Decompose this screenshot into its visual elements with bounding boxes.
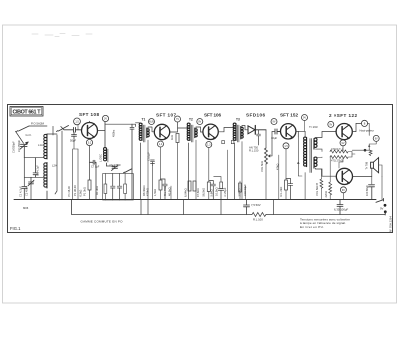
wire T1 primary bottom to bus	[140, 143, 142, 200]
wire switch top joins	[29, 125, 47, 127]
wire T1 sec bottom down	[147, 140, 149, 200]
svg-text:2 ×SFT 122: 2 ×SFT 122	[329, 113, 357, 118]
transistor Q3 SFT106	[203, 124, 218, 139]
trimmer capacitor base	[72, 132, 77, 138]
wire sec top to Q5 base	[316, 132, 337, 139]
wire T3 sec top to diode	[242, 126, 248, 130]
svg-text:P.O 5A2M: P.O 5A2M	[31, 122, 45, 126]
svg-text:47,5kΩ: 47,5kΩ	[196, 188, 200, 197]
title box CIBOT 661 T	[10, 107, 43, 117]
switch INT on battery	[376, 199, 384, 203]
diode SFD106	[248, 126, 266, 135]
wire rail drop D	[220, 200, 222, 215]
trimmer capacitor CA	[107, 163, 119, 171]
svg-text:L2A: L2A	[52, 164, 57, 168]
wire coil tap upper	[24, 157, 43, 159]
svg-text:R1 3kΩ: R1 3kΩ	[95, 186, 99, 195]
capacitor in box 2	[117, 174, 122, 201]
wire primary bottom to bus	[304, 173, 306, 200]
svg-text:6,3kΩ: 6,3kΩ	[79, 190, 83, 197]
svg-text:56,5kΩ: 56,5kΩ	[202, 188, 206, 197]
svg-text:7,5 50V: 7,5 50V	[251, 203, 261, 207]
arrow on speaker wire	[368, 145, 370, 147]
svg-text:C16 50µF: C16 50µF	[243, 184, 247, 196]
wire R15 to bus	[285, 190, 287, 200]
svg-text:CV 0,5pF: CV 0,5pF	[110, 163, 122, 167]
wire cap to base	[76, 129, 82, 131]
driver transformer secondary bottom	[314, 157, 317, 168]
svg-text:L.OSC: L.OSC	[99, 154, 103, 162]
wire T1 primary top	[136, 122, 141, 125]
wire R10 to bus	[208, 192, 210, 200]
svg-text:Tr 163: Tr 163	[309, 125, 318, 129]
svg-text:9V: 9V	[329, 124, 332, 127]
capacitor base coupling	[74, 128, 76, 133]
svg-text:T2: T2	[189, 118, 193, 122]
wire R7 to bus	[160, 190, 162, 200]
ferrite antenna coil L2	[44, 163, 47, 189]
svg-text:Haut-parleur: Haut-parleur	[360, 129, 375, 133]
svg-text:3V: 3V	[104, 118, 107, 121]
osc network box	[103, 174, 134, 201]
svg-text:220Ω: 220Ω	[324, 191, 328, 197]
battery terminal +	[384, 204, 387, 207]
resistor R10 emitter Q3	[207, 182, 210, 192]
resistor R13	[220, 182, 223, 189]
svg-text:R.L.100: R.L.100	[253, 218, 263, 222]
svg-text:47Ω R.T. 1: 47Ω R.T. 1	[331, 147, 344, 151]
wire Q4 collector to transformer	[296, 131, 298, 137]
svg-text:VOL 5kΩ B: VOL 5kΩ B	[315, 183, 319, 196]
svg-text:N° 70A.1264: N° 70A.1264	[389, 216, 393, 232]
svg-text:SFD106: SFD106	[246, 112, 265, 117]
svg-text:270kΩ: 270kΩ	[238, 189, 242, 197]
trimmer pad T3 b	[231, 141, 234, 144]
wire rail drop A	[140, 200, 142, 215]
wire rail drop C	[183, 200, 185, 215]
wire AGC drop	[245, 186, 247, 200]
transistor Q6 SFT122	[336, 168, 352, 184]
wire R20 leads	[320, 169, 322, 200]
transistor Q4 SFT152	[281, 124, 296, 139]
wire coil right line	[47, 134, 57, 194]
voltage callout below Q1	[86, 139, 92, 145]
resistor det load	[239, 183, 242, 192]
wire switch2 drop	[61, 131, 63, 200]
wire primary top	[296, 131, 305, 137]
wire speaker bottom loop	[353, 168, 372, 176]
svg-text:VOL 5kΩ: VOL 5kΩ	[260, 161, 264, 172]
capacitor emitter bypass	[90, 160, 97, 199]
wire detector agc drop	[227, 150, 229, 200]
svg-text:C2 45pF: C2 45pF	[25, 186, 29, 196]
resistor R7 emitter Q2	[159, 180, 162, 190]
wire T2 primary bottom to bus	[188, 143, 190, 200]
wire coil top stub	[52, 126, 54, 135]
wire Q3 pair jog	[214, 177, 221, 182]
svg-text:C1 4,7µF: C1 4,7µF	[19, 186, 23, 197]
wire wiper to cap	[272, 132, 275, 156]
resistor R8 drop	[176, 134, 179, 143]
svg-text:P1 3kΩ: P1 3kΩ	[83, 187, 87, 196]
wire Q1 collector to osc	[98, 122, 106, 148]
capacitor C6 hanging	[130, 124, 134, 199]
variable capacitor CV	[20, 142, 28, 149]
transistor Q5 SFT122	[336, 124, 352, 140]
svg-text:470kΩ: 470kΩ	[146, 188, 150, 196]
svg-text:T3: T3	[236, 118, 240, 122]
svg-text:R.L.2kΩ: R.L.2kΩ	[279, 187, 283, 197]
wire sec bottom top tap	[316, 156, 323, 159]
svg-text:9V: 9V	[375, 138, 378, 141]
svg-text:FIG.1: FIG.1	[10, 226, 21, 231]
svg-text:9V: 9V	[303, 117, 306, 120]
spring connector	[369, 150, 372, 155]
svg-text:R.L.70Ω: R.L.70Ω	[163, 186, 167, 196]
speaker LS	[371, 158, 379, 173]
voltage callout top right Q1	[102, 115, 108, 121]
wire T2 sec to Q3 base	[196, 127, 203, 132]
oscillator coil L3	[104, 148, 108, 163]
wire R8 to bus	[177, 143, 179, 200]
wire sec top bottom tap	[316, 149, 323, 151]
svg-text:En tiret en PU.: En tiret en PU.	[300, 225, 324, 229]
voltage callout T1	[149, 119, 155, 125]
resistor vert R21	[329, 182, 332, 195]
note text block	[300, 218, 350, 229]
capacitor C10 emitter bypass Q2	[161, 179, 168, 200]
wire pair drop A	[72, 149, 74, 200]
wire Q3 emitter down	[208, 148, 210, 183]
wire speaker right drop	[372, 165, 382, 184]
svg-text:Tr 708: Tr 708	[364, 161, 368, 169]
voltage callout 1,5V	[74, 118, 81, 125]
wire drop x171	[170, 186, 172, 200]
battery terminal -	[384, 210, 387, 213]
capacitor C9 base decoupling	[151, 160, 155, 200]
wire base lead Q1	[61, 127, 73, 130]
wire Q1 collector up	[89, 121, 91, 122]
ground bus wire	[14, 199, 376, 201]
wire T3 primary bottom to bus	[234, 143, 236, 200]
svg-text:9V: 9V	[273, 121, 276, 124]
resistor R3 emitter	[88, 180, 91, 190]
svg-text:1,5kΩ: 1,5kΩ	[153, 189, 157, 196]
capacitor C13 detector	[257, 130, 261, 145]
svg-text:100 66µF: 100 66µF	[365, 185, 369, 196]
svg-text:455kc: 455kc	[112, 129, 116, 137]
wire Q5 emitter down	[342, 146, 344, 152]
resistor R11 drop	[188, 181, 191, 191]
resistor R15 emitter Q4	[285, 180, 288, 190]
wire R3 to bus	[89, 190, 91, 200]
resistor vert R20	[320, 179, 323, 188]
wire T1 sec top to base Q2	[148, 127, 154, 132]
voltage callout below Q4	[283, 143, 289, 149]
capacitor C3 tap	[33, 158, 38, 178]
wire coil to bus	[46, 191, 48, 200]
output terminal circle B	[361, 120, 367, 126]
wire node up join	[365, 149, 369, 151]
wire Q6 emitter to bus	[342, 193, 344, 200]
wire T2 sec bottom down	[195, 140, 197, 200]
svg-text:SFT 108: SFT 108	[79, 112, 99, 117]
resistor RL100 in rail	[252, 213, 266, 217]
trimmer CA2	[28, 177, 34, 199]
wire det drop	[239, 181, 241, 200]
voltage callout left of Q4	[271, 119, 277, 125]
capacitor C14 coupling to Q4	[275, 129, 280, 134]
capacitor in box 1	[111, 174, 116, 201]
wire terminal to speaker line	[368, 123, 377, 150]
wire tap drop	[23, 158, 25, 186]
svg-text:7V: 7V	[176, 118, 179, 121]
resistor in box 1	[104, 184, 107, 194]
wire T3 sec bottom down	[241, 142, 243, 200]
wire pair jog	[73, 138, 78, 149]
transistor Q1 SFT108	[82, 123, 98, 139]
IF transformer T2	[187, 123, 197, 142]
svg-text:P1 36,00: P1 36,00	[67, 186, 71, 197]
volume potentiometer P	[265, 148, 273, 200]
driver transformer TR1 primary	[304, 137, 312, 173]
svg-text:SFT 106: SFT 106	[204, 112, 221, 117]
svg-text:5,6kΩ: 5,6kΩ	[210, 189, 214, 196]
wire rail drop B	[147, 200, 149, 215]
wire sec bottom to Q6 base	[316, 168, 337, 176]
junction node dot	[364, 149, 367, 152]
capacitor 0,1uF bus-rail	[244, 200, 250, 215]
svg-text:CIBOT 661 T: CIBOT 661 T	[13, 110, 42, 116]
transistor Q2 SFT107	[154, 124, 169, 139]
wire callout drop	[304, 121, 306, 132]
capacitor C15 emitter bypass Q4	[286, 179, 293, 200]
wire bias joins right	[349, 152, 355, 158]
capacitor C2	[22, 187, 27, 200]
voltage callout below Q6	[340, 187, 346, 193]
svg-text:50pF: 50pF	[70, 139, 76, 143]
resistor in box 2	[124, 184, 127, 194]
wire Q5 line to node	[352, 149, 365, 151]
svg-text:NUS: NUS	[149, 121, 154, 124]
svg-text:9V: 9V	[380, 207, 384, 211]
capacitor C12 emitter bypass Q3	[209, 181, 216, 200]
wire detector output drop	[265, 130, 267, 148]
svg-text:CA 4,7µF: CA 4,7µF	[36, 165, 40, 176]
svg-text:M06: M06	[23, 206, 29, 210]
svg-text:CV/250pF: CV/250pF	[12, 141, 16, 153]
wire Q1 emitter down	[89, 146, 91, 180]
wire CV branch	[16, 131, 24, 143]
wire Q5 emitter join Q6	[339, 157, 343, 168]
svg-text:9V: 9V	[342, 142, 345, 145]
battery cell bars	[384, 212, 386, 215]
svg-text:C7 5µF: C7 5µF	[91, 166, 100, 169]
resistor bias 1 horizontal	[330, 150, 348, 153]
IF transformer T3	[233, 123, 243, 142]
IF transformer T1	[139, 123, 149, 142]
svg-text:CV 250pF: CV 250pF	[17, 140, 21, 152]
svg-text:T1: T1	[142, 117, 146, 121]
schematic frame	[8, 105, 393, 233]
wire Q3 collector to T3	[218, 128, 234, 132]
svg-text:GAMME COMMUTE EN PO: GAMME COMMUTE EN PO	[81, 219, 124, 223]
voltage callout left of Q5	[328, 121, 334, 127]
arrow mark on wire	[297, 162, 300, 164]
wire Q2 emitter down	[160, 147, 162, 180]
resistor bias 2 horizontal	[330, 156, 348, 159]
svg-text:SFT 152: SFT 152	[280, 112, 298, 117]
wire CV to tap	[23, 147, 25, 158]
switch S1 PO contact	[17, 126, 30, 132]
voltage callout T2	[197, 119, 203, 125]
capacitor 100uF filter	[337, 200, 343, 215]
wire Q2 collector to T2	[170, 122, 189, 132]
faint scan marks top	[32, 34, 92, 37]
wire coil tap lower	[24, 176, 43, 178]
wire right edge drop	[381, 176, 383, 199]
capacitor 100uF output	[369, 185, 375, 200]
wire bias drop	[278, 155, 280, 200]
negative rail wire	[72, 200, 253, 215]
svg-text:P1 36,00: P1 36,00	[73, 185, 77, 196]
svg-text:C0,1µF: C0,1µF	[147, 152, 151, 161]
wire Q5 collector up right	[352, 123, 361, 131]
svg-text:SFT 107: SFT 107	[156, 112, 176, 117]
wire rail drop E	[273, 200, 275, 215]
voltage callout above Q2 collector	[175, 116, 181, 122]
wire box resistor leads	[105, 174, 125, 201]
svg-text:8V: 8V	[198, 121, 201, 124]
svg-text:L1A: L1A	[38, 143, 43, 147]
svg-text:10µF: 10µF	[271, 136, 278, 140]
capacitor C13b	[218, 189, 224, 200]
wire callout stem	[77, 125, 79, 130]
wire battery to rail	[384, 213, 386, 215]
wire collector top rail	[105, 124, 136, 126]
wire pair drop B	[77, 149, 79, 200]
svg-text:1kΩ: 1kΩ	[170, 135, 174, 140]
switch S2 contact	[57, 126, 69, 132]
svg-text:R6 40kΩ: R6 40kΩ	[142, 185, 146, 196]
resistor R12 drop	[193, 181, 196, 191]
ferrite antenna coil L1	[44, 134, 47, 159]
voltage callout transformer top	[302, 115, 308, 121]
voltage callout below Q5	[340, 140, 346, 146]
voltage callout speaker	[373, 135, 379, 141]
svg-text:R.L.150: R.L.150	[249, 149, 259, 153]
svg-text:6,35 100µF: 6,35 100µF	[334, 208, 348, 212]
wire R21 leads	[329, 157, 331, 200]
negative rail wire right part	[266, 214, 385, 216]
trimmer pad T3 a	[222, 141, 225, 144]
voltage callout below Q2	[158, 141, 164, 147]
svg-text:G.O.: G.O.	[26, 133, 32, 137]
svg-text:9V: 9V	[342, 189, 345, 192]
driver transformer secondary top	[314, 138, 317, 149]
switch S3 osc	[124, 169, 132, 173]
wire Q4 emitter down	[285, 149, 287, 180]
voltage callout below Q3	[206, 142, 212, 148]
wire driver primary left line	[298, 137, 302, 176]
svg-text:6,04kΩ: 6,04kΩ	[184, 188, 188, 197]
